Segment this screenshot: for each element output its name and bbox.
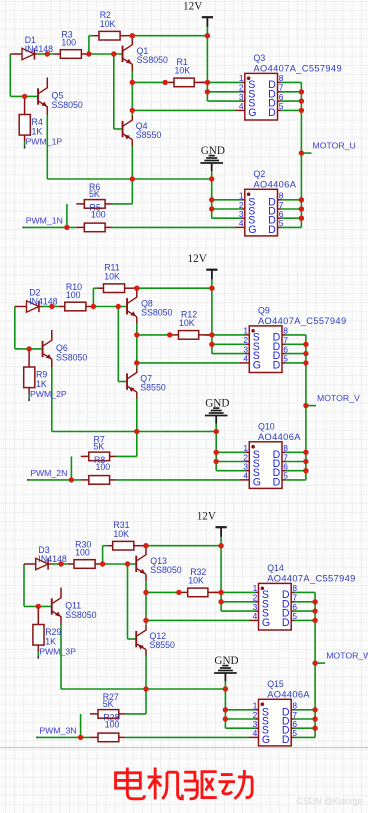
svg-text:PWM_3P: PWM_3P bbox=[39, 647, 76, 657]
svg-text:100: 100 bbox=[96, 462, 111, 472]
svg-text:1K: 1K bbox=[45, 636, 56, 646]
svg-text:5: 5 bbox=[292, 728, 297, 738]
svg-text:SS8050: SS8050 bbox=[141, 308, 172, 318]
svg-text:10K: 10K bbox=[188, 575, 204, 585]
svg-text:AO4406A: AO4406A bbox=[267, 689, 310, 699]
svg-text:PWM_3N: PWM_3N bbox=[39, 726, 76, 736]
svg-text:SS8050: SS8050 bbox=[65, 610, 96, 620]
svg-text:5K: 5K bbox=[94, 441, 105, 451]
svg-text:4: 4 bbox=[243, 471, 248, 481]
svg-text:4: 4 bbox=[243, 354, 248, 364]
svg-text:MOTOR_V: MOTOR_V bbox=[317, 393, 360, 403]
svg-text:100: 100 bbox=[66, 290, 81, 300]
svg-text:AO4406A: AO4406A bbox=[254, 179, 297, 189]
svg-text:SS8050: SS8050 bbox=[150, 565, 181, 575]
svg-text:5: 5 bbox=[283, 471, 288, 481]
svg-text:Q10: Q10 bbox=[258, 422, 275, 432]
svg-text:PWM_2N: PWM_2N bbox=[30, 468, 67, 478]
svg-text:GND: GND bbox=[214, 655, 238, 667]
svg-text:12V: 12V bbox=[188, 253, 207, 265]
svg-text:GND: GND bbox=[205, 397, 229, 409]
svg-text:100: 100 bbox=[91, 210, 106, 220]
svg-text:4: 4 bbox=[239, 101, 244, 111]
svg-text:Q15: Q15 bbox=[267, 679, 284, 689]
svg-text:5K: 5K bbox=[89, 189, 100, 199]
svg-text:4: 4 bbox=[253, 611, 258, 621]
svg-text:PWM_2P: PWM_2P bbox=[30, 389, 67, 399]
svg-text:IN4148: IN4148 bbox=[38, 554, 66, 564]
svg-text:5: 5 bbox=[279, 218, 284, 228]
svg-text:Q2: Q2 bbox=[254, 169, 266, 179]
svg-text:CSDN @Kisorge: CSDN @Kisorge bbox=[297, 796, 363, 806]
svg-text:1K: 1K bbox=[32, 126, 43, 136]
svg-text:10K: 10K bbox=[179, 318, 195, 328]
svg-text:S8550: S8550 bbox=[150, 640, 176, 650]
svg-text:100: 100 bbox=[61, 37, 76, 47]
svg-text:PWM_1N: PWM_1N bbox=[26, 216, 63, 226]
svg-text:SS8050: SS8050 bbox=[52, 100, 83, 110]
svg-text:10K: 10K bbox=[100, 19, 116, 29]
svg-text:D: D bbox=[282, 734, 290, 746]
svg-text:S8550: S8550 bbox=[136, 130, 162, 140]
svg-text:10K: 10K bbox=[175, 65, 191, 75]
svg-text:G: G bbox=[253, 359, 261, 371]
svg-text:AO4407A_C557949: AO4407A_C557949 bbox=[258, 316, 346, 326]
svg-text:10K: 10K bbox=[104, 271, 120, 281]
svg-text:GND: GND bbox=[201, 145, 225, 157]
svg-text:MOTOR_U: MOTOR_U bbox=[313, 140, 356, 150]
svg-text:5K: 5K bbox=[103, 699, 114, 709]
svg-text:Q9: Q9 bbox=[258, 306, 270, 316]
svg-text:Q3: Q3 bbox=[254, 53, 266, 63]
svg-text:SS8050: SS8050 bbox=[56, 352, 87, 362]
svg-text:D: D bbox=[273, 359, 281, 371]
svg-text:G: G bbox=[262, 734, 270, 746]
svg-text:5: 5 bbox=[292, 611, 297, 621]
svg-text:AO4407A_C557949: AO4407A_C557949 bbox=[267, 574, 355, 584]
svg-text:G: G bbox=[253, 476, 261, 488]
svg-text:IN4148: IN4148 bbox=[25, 44, 53, 54]
svg-text:10K: 10K bbox=[113, 529, 129, 539]
svg-text:G: G bbox=[248, 107, 256, 119]
svg-text:SS8050: SS8050 bbox=[137, 55, 168, 65]
svg-text:12V: 12V bbox=[197, 511, 216, 523]
svg-text:1K: 1K bbox=[36, 379, 47, 389]
svg-text:4: 4 bbox=[239, 218, 244, 228]
svg-text:G: G bbox=[262, 617, 270, 629]
svg-text:PWM_1P: PWM_1P bbox=[26, 137, 63, 147]
svg-text:Q14: Q14 bbox=[267, 563, 284, 573]
svg-text:D: D bbox=[268, 224, 276, 236]
svg-text:IN4148: IN4148 bbox=[29, 296, 57, 306]
svg-text:4: 4 bbox=[253, 728, 258, 738]
svg-text:S8550: S8550 bbox=[140, 383, 166, 393]
svg-text:12V: 12V bbox=[183, 1, 202, 13]
svg-text:G: G bbox=[248, 224, 256, 236]
svg-text:5: 5 bbox=[283, 354, 288, 364]
svg-text:5: 5 bbox=[279, 101, 284, 111]
svg-text:100: 100 bbox=[75, 547, 90, 557]
svg-text:AO4406A: AO4406A bbox=[258, 432, 301, 442]
svg-text:D: D bbox=[273, 476, 281, 488]
svg-text:D: D bbox=[268, 107, 276, 119]
svg-text:AO4407A_C557949: AO4407A_C557949 bbox=[254, 64, 342, 74]
svg-text:MOTOR_W: MOTOR_W bbox=[326, 650, 368, 660]
svg-text:100: 100 bbox=[105, 720, 120, 730]
svg-text:D: D bbox=[282, 617, 290, 629]
